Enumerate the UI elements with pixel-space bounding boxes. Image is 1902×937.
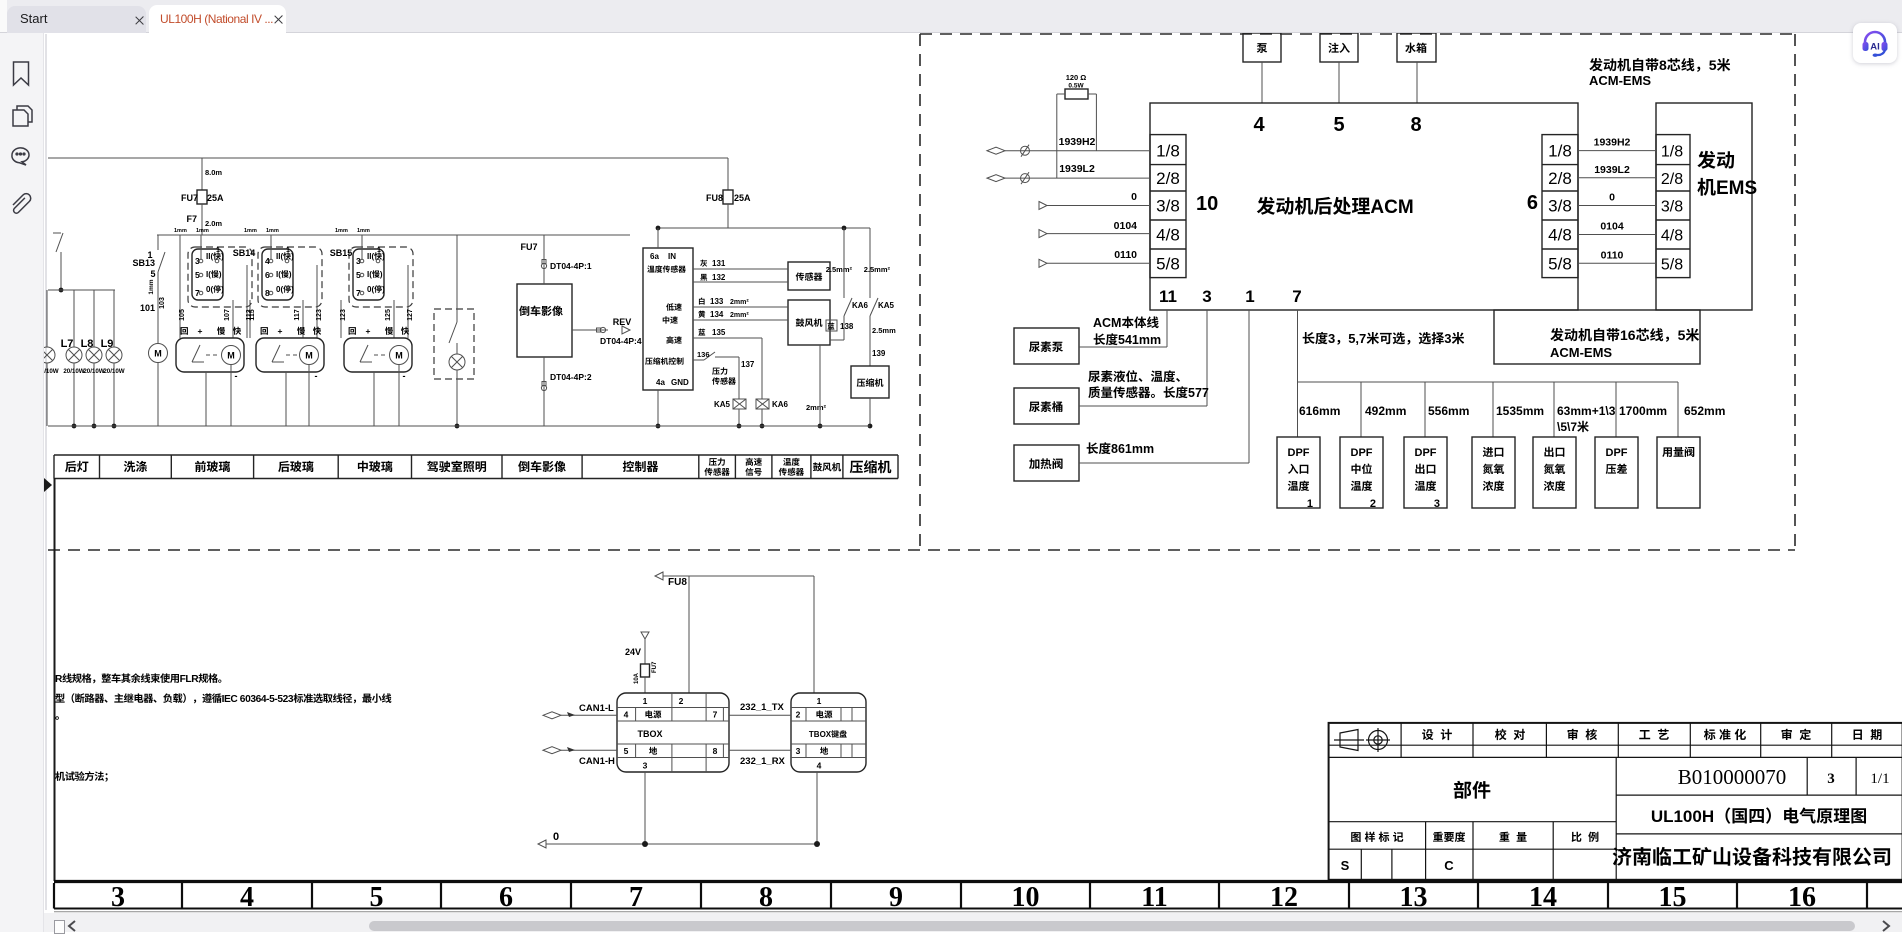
- horizontal scrollbar: [44, 913, 1902, 932]
- svg-text:1mm: 1mm: [148, 279, 155, 294]
- wire 1939H2 left: [987, 147, 1005, 154]
- svg-text:4: 4: [1253, 114, 1265, 136]
- svg-text:3/8: 3/8: [1661, 199, 1683, 216]
- wire camera bottom / connector DT04-4P:2: [543, 357, 545, 426]
- lamp L7: [73, 290, 75, 347]
- washer assembly SB14b: [256, 338, 324, 372]
- svg-text:1mm: 1mm: [266, 228, 279, 234]
- lamp L9: [113, 290, 115, 347]
- svg-text:1/8: 1/8: [1156, 142, 1180, 161]
- svg-text:3: 3: [1827, 771, 1835, 787]
- ruler row: [53, 883, 55, 909]
- washer assembly SB14: [176, 338, 244, 372]
- urea tank box 尿素桶: [1014, 388, 1079, 424]
- svg-text:L8: L8: [81, 338, 94, 350]
- svg-text:UL100H: UL100H: [1651, 807, 1714, 826]
- svg-text:8: 8: [759, 882, 773, 913]
- svg-text:131: 131: [712, 259, 726, 268]
- sheet left border: [45, 34, 47, 910]
- svg-text:+: +: [366, 326, 371, 336]
- svg-text:2/8: 2/8: [1661, 171, 1683, 188]
- svg-text:1939H2: 1939H2: [1594, 137, 1631, 149]
- svg-text:ACM-EMS: ACM-EMS: [1550, 345, 1612, 360]
- svg-text:3: 3: [1202, 287, 1211, 306]
- svg-text:\5\7: \5\7: [1557, 420, 1577, 434]
- svg-text:-: -: [235, 371, 238, 381]
- svg-text:492mm: 492mm: [1365, 404, 1406, 418]
- svg-text:1mm: 1mm: [357, 228, 370, 234]
- svg-text:): ): [219, 270, 222, 279]
- svg-text:24V: 24V: [625, 647, 641, 657]
- svg-text:I(: I(: [276, 270, 281, 279]
- svg-text:16: 16: [1620, 327, 1636, 343]
- left sidebar: [0, 33, 44, 932]
- svg-text:): ): [221, 285, 224, 294]
- heater valve box 加热阀: [1014, 445, 1079, 481]
- svg-text:2/8: 2/8: [1156, 169, 1180, 188]
- svg-text:AI: AI: [1870, 42, 1880, 53]
- blower box 鼓风机: [788, 300, 830, 345]
- svg-text:103: 103: [159, 297, 166, 309]
- svg-text:L9: L9: [101, 338, 114, 350]
- relay coil KA6: [756, 399, 769, 409]
- part cell 部件: [1329, 821, 1617, 823]
- wire 0 left: [1039, 202, 1047, 210]
- relay coil KA5: [733, 399, 746, 409]
- svg-text:2mm²: 2mm²: [730, 312, 749, 319]
- wire 132: [693, 281, 788, 283]
- svg-text:10A: 10A: [634, 672, 640, 684]
- motor M-washer-pump: [149, 344, 168, 363]
- svg-text:5: 5: [1333, 114, 1344, 136]
- svg-text:7: 7: [629, 882, 643, 913]
- cab light dashed box: [434, 309, 474, 379]
- CAN1-L wire: [543, 712, 561, 719]
- notes text: [55, 673, 221, 685]
- svg-text:13: 13: [1400, 882, 1428, 913]
- svg-text:232_1_TX: 232_1_TX: [740, 702, 785, 713]
- ACM main box 发动机后处理ACM: [1150, 103, 1578, 310]
- svg-text:4: 4: [240, 882, 254, 913]
- svg-text:125: 125: [385, 309, 392, 321]
- switch S-left: [56, 233, 63, 252]
- svg-text:63mm+1\3: 63mm+1\3: [1557, 404, 1616, 418]
- svg-text:FU7: FU7: [652, 661, 658, 673]
- drawing title UL100H: [1651, 807, 1866, 826]
- svg-text:8: 8: [1659, 57, 1667, 73]
- wire 134: [693, 319, 788, 321]
- svg-text:138: 138: [840, 322, 854, 331]
- svg-text:1mm: 1mm: [335, 228, 348, 234]
- svg-text:6a: 6a: [650, 252, 659, 261]
- svg-text:0: 0: [1609, 192, 1615, 204]
- svg-text:L7: L7: [61, 338, 74, 350]
- svg-text:123: 123: [316, 309, 323, 321]
- svg-text:4: 4: [817, 761, 822, 771]
- svg-text:+: +: [278, 326, 283, 336]
- svg-text:137: 137: [741, 360, 755, 369]
- svg-text:20/10W: 20/10W: [63, 368, 84, 375]
- svg-text:2.5mm²: 2.5mm²: [864, 265, 891, 274]
- svg-text:DT04-4P:4: DT04-4P:4: [600, 336, 642, 346]
- svg-text:0(: 0(: [367, 285, 374, 294]
- svg-text:1: 1: [1307, 498, 1313, 510]
- svg-text:F7: F7: [186, 214, 197, 224]
- svg-text:DPF: DPF: [1606, 447, 1628, 459]
- blower ground wire: [819, 345, 821, 426]
- svg-text:KA6: KA6: [772, 400, 789, 409]
- compressor box 压缩机: [851, 366, 889, 398]
- wire 232_1_RX: [729, 749, 791, 751]
- svg-text:11: 11: [1159, 287, 1177, 306]
- ground bus 0: [538, 840, 546, 848]
- svg-text:): ): [380, 270, 383, 279]
- pump box 泵: [1243, 33, 1281, 62]
- svg-text:139: 139: [872, 349, 886, 358]
- 24V supply: [641, 632, 649, 639]
- wiper switch module SB15: [349, 247, 413, 307]
- svg-text:KA5: KA5: [714, 400, 731, 409]
- svg-text:4a: 4a: [656, 378, 665, 387]
- svg-text:5/8: 5/8: [1661, 256, 1683, 273]
- ACM-EMS wires: [1578, 150, 1656, 152]
- svg-text:R: R: [55, 674, 63, 685]
- svg-text:10: 10: [1196, 193, 1218, 215]
- AI assistant button: [1853, 23, 1897, 63]
- company name: [1613, 847, 1890, 866]
- svg-text:6: 6: [499, 882, 513, 913]
- lamp L8: [93, 290, 95, 347]
- svg-text:I(: I(: [206, 270, 211, 279]
- svg-text:25A: 25A: [734, 193, 751, 203]
- svg-text:16: 16: [1788, 882, 1816, 913]
- svg-text:861mm: 861mm: [1111, 442, 1154, 456]
- svg-text:0.5W: 0.5W: [1068, 83, 1084, 90]
- svg-text:105: 105: [179, 309, 186, 321]
- svg-text:5: 5: [370, 882, 384, 913]
- page boundary dashed top (right sheet): [920, 33, 1795, 35]
- svg-text:5: 5: [1678, 327, 1686, 343]
- svg-text:2.5mm: 2.5mm: [872, 326, 896, 335]
- sensor box 传感器: [788, 262, 830, 290]
- svg-text:FLR: FLR: [180, 674, 200, 685]
- svg-text:0: 0: [1131, 191, 1137, 203]
- svg-text:KA5: KA5: [878, 301, 895, 310]
- tab bar: [0, 0, 1902, 33]
- relay contact KA6: [843, 228, 845, 298]
- node left lamp bus: [59, 288, 64, 293]
- svg-text:7: 7: [1292, 287, 1301, 306]
- svg-text:4/8: 4/8: [1548, 226, 1572, 245]
- svg-text:556mm: 556mm: [1428, 404, 1469, 418]
- boxed label 蓝 138: [826, 320, 837, 331]
- svg-text:232_1_RX: 232_1_RX: [740, 756, 786, 767]
- svg-text:1mm: 1mm: [244, 228, 257, 234]
- fuse FU8: [727, 158, 729, 190]
- svg-text:): ): [221, 252, 224, 261]
- tank box 水箱: [1397, 33, 1436, 62]
- svg-text:1939H2: 1939H2: [1059, 136, 1096, 148]
- svg-text:134: 134: [710, 310, 724, 319]
- wire 133: [693, 306, 788, 308]
- first-angle projection symbol: [1334, 728, 1390, 752]
- svg-text:5: 5: [150, 269, 155, 279]
- fuse FU7 TBOX: [641, 664, 650, 677]
- svg-text:KA6: KA6: [852, 301, 869, 310]
- svg-text:3: 3: [643, 761, 648, 771]
- svg-text:0104: 0104: [1600, 221, 1624, 233]
- svg-text:1: 1: [1245, 287, 1254, 306]
- svg-text:541mm: 541mm: [1118, 333, 1161, 347]
- svg-text:127: 127: [407, 309, 414, 321]
- svg-text:-: -: [315, 371, 318, 381]
- svg-text:2mm²: 2mm²: [730, 299, 749, 306]
- svg-text:0: 0: [553, 831, 559, 843]
- lamp cab light: [449, 354, 465, 370]
- svg-text:2.0m: 2.0m: [205, 219, 222, 228]
- svg-text:652mm: 652mm: [1684, 404, 1725, 418]
- svg-text:M: M: [395, 351, 403, 361]
- svg-text:M: M: [154, 349, 162, 359]
- svg-text:101: 101: [140, 303, 155, 313]
- svg-text:577: 577: [1188, 386, 1209, 400]
- svg-text:2: 2: [679, 696, 684, 706]
- svg-text:6: 6: [1527, 192, 1538, 214]
- svg-text:2: 2: [796, 710, 801, 720]
- svg-text:EMS: EMS: [1716, 178, 1757, 199]
- svg-text:+: +: [198, 326, 203, 336]
- svg-text:12: 12: [1270, 882, 1298, 913]
- svg-text:0110: 0110: [1114, 249, 1137, 261]
- inject box 注入: [1320, 33, 1358, 62]
- svg-text:TBOX: TBOX: [809, 730, 832, 739]
- svg-text:20/10W: 20/10W: [83, 368, 104, 375]
- svg-text:FU7: FU7: [520, 242, 537, 252]
- wiper switch module SB14b: [258, 247, 322, 307]
- svg-text:): ): [291, 285, 294, 294]
- svg-text:): ): [382, 285, 385, 294]
- wire 1939L2 left: [987, 175, 1005, 182]
- svg-text:FU7: FU7: [181, 193, 198, 203]
- CAN1-H wire: [543, 747, 561, 754]
- svg-text:1: 1: [377, 247, 381, 254]
- svg-text:DPF: DPF: [1351, 447, 1373, 459]
- svg-text:1/1: 1/1: [1870, 771, 1889, 787]
- svg-text:II(: II(: [206, 252, 213, 261]
- mark value row: [1360, 849, 1362, 880]
- wire 131: [693, 268, 788, 270]
- svg-text:FU8: FU8: [706, 193, 723, 203]
- wiper switch module SB14: [188, 247, 252, 307]
- svg-text:S: S: [1341, 858, 1350, 873]
- sidebar expand handle: [44, 478, 52, 492]
- svg-text:ACM: ACM: [1093, 316, 1121, 330]
- wire camera top / connector DT04-4P:1: [543, 235, 545, 284]
- svg-text:1mm: 1mm: [196, 228, 209, 234]
- svg-text:3: 3: [1328, 331, 1335, 346]
- svg-text:5: 5: [624, 746, 629, 756]
- svg-text:123: 123: [340, 309, 347, 321]
- svg-text:2.5mm²: 2.5mm²: [826, 265, 853, 274]
- svg-text:2mm²: 2mm²: [806, 403, 827, 412]
- svg-text:FU8: FU8: [668, 577, 687, 588]
- svg-text:1: 1: [216, 247, 220, 254]
- svg-text:135: 135: [712, 328, 726, 337]
- svg-text:DT04-4P:2: DT04-4P:2: [550, 372, 592, 382]
- wire bus wiper feed: [157, 234, 630, 236]
- svg-text:GND: GND: [671, 378, 689, 387]
- mark header row: [1329, 848, 1617, 850]
- switch cab light: [456, 235, 458, 322]
- svg-text:1: 1: [286, 247, 290, 254]
- svg-text:DPF: DPF: [1288, 447, 1310, 459]
- svg-text:133: 133: [710, 297, 724, 306]
- svg-text:3: 3: [1434, 498, 1440, 510]
- TBOX connector: [617, 693, 729, 772]
- svg-text:20/10W: 20/10W: [103, 368, 124, 375]
- svg-text:SB15: SB15: [330, 248, 353, 258]
- TBOX power feed FU8: [655, 572, 663, 580]
- svg-text:107: 107: [224, 309, 231, 321]
- svg-text:SB13: SB13: [132, 258, 155, 268]
- svg-text:-: -: [403, 371, 406, 381]
- ACM right pin header: [1542, 135, 1578, 278]
- svg-text:II(: II(: [367, 252, 374, 261]
- svg-text:): ): [291, 252, 294, 261]
- svg-text:9: 9: [889, 882, 903, 913]
- relay contact KA5: [869, 228, 871, 298]
- svg-text:0(: 0(: [206, 285, 213, 294]
- svg-text:120 Ω: 120 Ω: [1066, 73, 1087, 82]
- svg-text:4: 4: [624, 710, 629, 720]
- wire 0110 left: [1039, 259, 1047, 267]
- svg-text:DPF: DPF: [1415, 447, 1437, 459]
- svg-text:15: 15: [1659, 882, 1687, 913]
- svg-text:5: 5: [1709, 57, 1717, 73]
- svg-text:DT04-4P:1: DT04-4P:1: [550, 261, 592, 271]
- svg-text:1535mm: 1535mm: [1496, 404, 1544, 418]
- svg-text:8.0m: 8.0m: [205, 168, 222, 177]
- svg-text:25A: 25A: [207, 193, 224, 203]
- svg-text:8: 8: [1410, 114, 1421, 136]
- svg-text:M: M: [305, 351, 313, 361]
- svg-text:C: C: [1444, 858, 1454, 873]
- drawing number B010000070: [1806, 757, 1808, 795]
- svg-text:CAN1-L: CAN1-L: [579, 703, 614, 714]
- svg-text:14: 14: [1529, 882, 1557, 913]
- note 8芯线: [1589, 57, 1730, 73]
- title block: [1329, 723, 1902, 880]
- svg-text:SB14: SB14: [233, 248, 256, 258]
- svg-text:ACM-EMS: ACM-EMS: [1589, 73, 1651, 88]
- svg-text:1/8: 1/8: [1661, 144, 1683, 161]
- svg-text:0104: 0104: [1114, 220, 1138, 232]
- svg-text:11: 11: [1141, 882, 1167, 913]
- svg-text:1/8: 1/8: [1548, 142, 1572, 161]
- urea pump box 尿素泵: [1014, 328, 1079, 364]
- svg-text:2/8: 2/8: [1548, 169, 1572, 188]
- svg-text:1939L2: 1939L2: [1059, 163, 1095, 175]
- washer assembly SB15: [344, 338, 412, 372]
- page boundary dashed middle vertical: [919, 34, 921, 550]
- wire 135: [693, 337, 762, 339]
- note 16芯线 box: [1494, 310, 1700, 364]
- lamp L6 (cut): [46, 290, 48, 347]
- svg-text:7: 7: [713, 710, 718, 720]
- page boundary dashed bottom: [48, 549, 1795, 551]
- svg-text:IEC 60364-5-523: IEC 60364-5-523: [222, 694, 294, 705]
- DPF manifold wire: [1297, 310, 1299, 437]
- wire 0104 left: [1039, 230, 1047, 238]
- svg-text:): ): [289, 270, 292, 279]
- svg-text:115: 115: [249, 309, 256, 320]
- fuse FU7: [201, 158, 203, 190]
- CAN terminator resistor 120Ω: [1065, 89, 1088, 99]
- svg-text:2: 2: [1370, 498, 1376, 510]
- svg-text:3: 3: [1444, 331, 1451, 346]
- HVAC controller box: [643, 248, 693, 390]
- svg-text:CAN1-H: CAN1-H: [579, 756, 615, 767]
- svg-text:3/8: 3/8: [1548, 197, 1572, 216]
- left sheet legend table: [54, 454, 898, 456]
- svg-text:B010000070: B010000070: [1678, 765, 1787, 789]
- TBOX keyboard connector: [791, 693, 866, 772]
- svg-text:616mm: 616mm: [1299, 404, 1340, 418]
- svg-text:1939L2: 1939L2: [1594, 164, 1630, 176]
- node REV signal: [572, 329, 608, 331]
- svg-text:5/8: 5/8: [1548, 254, 1572, 273]
- svg-text:TBOX: TBOX: [637, 729, 662, 739]
- sheet border thick: [54, 880, 1902, 883]
- wire 232_1_TX: [729, 714, 791, 716]
- svg-text:136: 136: [697, 350, 710, 359]
- EMS box 发动机EMS: [1656, 103, 1752, 310]
- svg-text:IN: IN: [668, 252, 676, 261]
- wire 136 / pressure switch: [693, 359, 704, 361]
- page boundary dashed right vertical: [1794, 34, 1796, 550]
- svg-text:132: 132: [712, 273, 726, 282]
- sheet frame left edge: [54, 478, 56, 881]
- svg-text:5/8: 5/8: [1156, 254, 1180, 273]
- svg-text:4/8: 4/8: [1661, 228, 1683, 245]
- svg-text:0110: 0110: [1601, 249, 1624, 261]
- svg-text:M: M: [227, 351, 235, 361]
- svg-text:3/8: 3/8: [1156, 197, 1180, 216]
- wire AC branch: [658, 227, 870, 229]
- svg-text:3: 3: [796, 746, 801, 756]
- svg-text:I(: I(: [367, 270, 372, 279]
- svg-text:1: 1: [817, 696, 822, 706]
- svg-text:0(: 0(: [276, 285, 283, 294]
- svg-text:1: 1: [643, 696, 648, 706]
- svg-text:ACM: ACM: [1370, 197, 1413, 218]
- svg-text:8: 8: [713, 746, 718, 756]
- wire bus B+ top: [48, 157, 728, 159]
- harness labels: [1093, 316, 1159, 330]
- wire ground bus bottom: [48, 425, 870, 427]
- svg-text:): ): [382, 252, 385, 261]
- ACM left pin header 1/8-5/8: [1150, 135, 1186, 278]
- reversing camera box: [517, 284, 572, 357]
- svg-text:117: 117: [294, 309, 301, 320]
- svg-text:5,7: 5,7: [1348, 331, 1366, 346]
- svg-text:1mm: 1mm: [174, 228, 187, 234]
- svg-text:1700mm: 1700mm: [1619, 404, 1667, 418]
- svg-text:3: 3: [111, 882, 125, 913]
- svg-text:10: 10: [1012, 882, 1040, 913]
- svg-text:4/8: 4/8: [1156, 226, 1180, 245]
- DPF sensor boxes: [1277, 437, 1320, 508]
